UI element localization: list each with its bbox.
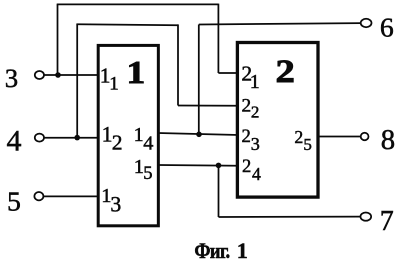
terminal 7 xyxy=(360,206,393,237)
wire horizontal to terminal 7 xyxy=(219,216,361,218)
pin label 1_2 xyxy=(102,123,123,155)
wire top horizontal xyxy=(57,3,219,5)
terminal 5 xyxy=(7,186,43,217)
pin label 2_2 xyxy=(242,96,260,122)
terminal 8 xyxy=(361,124,396,156)
svg-text:5: 5 xyxy=(143,164,152,184)
terminal 6 xyxy=(361,12,394,43)
wire into pin 2_1 xyxy=(218,72,239,74)
block 2 xyxy=(237,43,318,198)
svg-text:5: 5 xyxy=(7,186,21,217)
pin label 1_5 xyxy=(134,156,153,184)
junction node on wire 1_5-2_4 xyxy=(216,163,222,169)
svg-text:1: 1 xyxy=(109,73,119,94)
svg-text:1: 1 xyxy=(134,124,144,146)
svg-text:1: 1 xyxy=(237,238,248,263)
wire node4 up xyxy=(76,24,78,138)
wire horizontal to terminal 6 xyxy=(199,23,361,24)
svg-text:2: 2 xyxy=(112,131,123,155)
svg-text:2: 2 xyxy=(275,53,294,89)
wire pin 2_5 to terminal 8 xyxy=(318,136,361,138)
wire node3 up xyxy=(57,4,59,75)
svg-text:5: 5 xyxy=(303,135,312,154)
wire pin 1_4 to pin 2_3 xyxy=(158,133,239,135)
svg-text:2: 2 xyxy=(251,103,260,122)
pin label 2_5 xyxy=(294,127,312,154)
wire pin 1_5 to pin 2_4 xyxy=(158,164,239,167)
svg-text:4: 4 xyxy=(7,124,22,157)
pin label 2_3 xyxy=(242,126,260,154)
svg-text:7: 7 xyxy=(380,206,394,237)
pin label 1_1 xyxy=(100,64,119,95)
pin label 2_4 xyxy=(242,156,261,184)
svg-text:8: 8 xyxy=(381,124,395,156)
pin label 2_1 xyxy=(241,62,259,93)
wire into pin 2_2 xyxy=(178,105,239,107)
wire terminal4 to pin 1_2 xyxy=(44,137,98,139)
svg-text:3: 3 xyxy=(110,192,121,216)
block 1 label "1" xyxy=(126,56,145,90)
terminal 4 xyxy=(7,124,44,157)
wire down to pin 2_1 xyxy=(217,4,219,73)
svg-text:2: 2 xyxy=(294,127,303,147)
svg-text:1: 1 xyxy=(126,56,145,90)
junction node on wire 3 xyxy=(55,72,61,78)
svg-text:6: 6 xyxy=(380,12,394,43)
svg-text:2: 2 xyxy=(242,96,252,117)
svg-text:Фиг.: Фиг. xyxy=(194,240,230,263)
wire terminal5 to pin 1_3 xyxy=(44,195,98,197)
wire down to pin 2_2 level xyxy=(177,24,179,105)
block 2 label "2" xyxy=(275,53,294,89)
svg-text:2: 2 xyxy=(242,126,251,147)
junction node on wire 1_4-2_3 xyxy=(196,132,202,138)
svg-text:4: 4 xyxy=(143,133,153,155)
svg-text:2: 2 xyxy=(242,156,251,177)
terminal 3 xyxy=(5,63,44,93)
svg-text:3: 3 xyxy=(5,63,18,93)
junction node on wire 4 xyxy=(74,135,80,141)
svg-text:4: 4 xyxy=(252,164,261,184)
svg-text:3: 3 xyxy=(251,134,260,154)
wire terminal3 to pin 1_1 xyxy=(44,74,98,76)
wire node down toward terminal 7 xyxy=(218,165,220,217)
pin label 1_3 xyxy=(101,185,121,216)
block 1 xyxy=(98,45,158,225)
wire horizontal toward 2_2 column xyxy=(76,24,178,25)
pin label 1_4 xyxy=(134,124,154,154)
caption Fig. 1 xyxy=(194,238,247,263)
wire node up toward terminal 6 xyxy=(198,25,200,135)
svg-text:1: 1 xyxy=(250,71,260,93)
